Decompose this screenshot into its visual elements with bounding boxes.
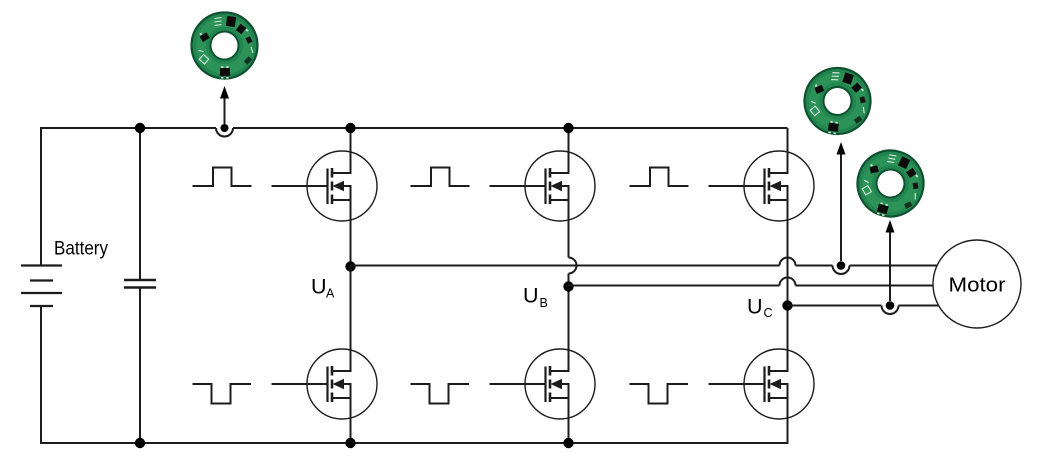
junction top rail / leg A [345, 123, 355, 133]
wire gate lead Q4 [490, 383, 546, 385]
wire node B down to Q4 drain [568, 287, 570, 372]
transistor Q2 low-side A [307, 349, 377, 419]
wire Q3 source down to hop [568, 200, 570, 258]
current sensor CS3 (ring PCB) [849, 142, 932, 225]
svg-text:U: U [311, 275, 327, 299]
junction node U_C [782, 300, 792, 310]
wire phase A (hop to sensor tap) [796, 265, 833, 267]
wire battery negative lead [40, 306, 42, 444]
node label U_C [747, 295, 773, 321]
wire capacitor bottom lead [139, 288, 141, 445]
gate drive pulse Q6 (low side) [630, 384, 689, 404]
wire phase B output (node to leg C hop) [569, 285, 780, 287]
wire Q3 hop to node B [568, 274, 570, 287]
gate drive pulse Q2 (low side) [193, 384, 252, 404]
sensor tap on phase C [882, 301, 899, 314]
svg-text:U: U [523, 284, 539, 308]
wire Q1 drain to top rail [350, 128, 352, 173]
gate drive pulse Q3 (high side) [411, 168, 470, 187]
wire gate lead Q6 [709, 383, 765, 385]
wire capacitor top lead [139, 128, 141, 280]
wire gate lead Q5 [709, 185, 765, 187]
wire top DC rail right of sensor tap [233, 127, 788, 129]
wire gate lead Q1 [272, 185, 328, 187]
svg-text:B: B [540, 296, 548, 310]
transistor Q5 high-side C [744, 151, 814, 221]
node label U_B [523, 284, 548, 311]
wire phase B (hop to motor) [796, 285, 936, 287]
svg-text:C: C [764, 306, 773, 320]
capacitor C1 [124, 280, 156, 288]
transistor Q1 high-side A [307, 151, 377, 221]
wire phase A output (node to leg C hop) [351, 265, 780, 267]
node label U_A [311, 275, 335, 301]
sensor tap on DC rail [216, 124, 233, 137]
wire Q4 source to bottom rail [568, 398, 570, 444]
measurement arrow to sensor CS2 [837, 142, 846, 261]
transistor Q4 low-side B [525, 349, 595, 419]
svg-text:U: U [747, 295, 763, 319]
wire gate lead Q3 [490, 185, 546, 187]
wire Q5 drain to top rail [787, 128, 789, 173]
svg-text:Motor: Motor [949, 274, 1006, 297]
wire gate lead Q2 [272, 383, 328, 385]
wire phase C (sensor tap to motor) [899, 305, 943, 307]
junction bottom rail / leg B [563, 438, 573, 448]
svg-text:A: A [326, 287, 335, 301]
junction node U_B [563, 281, 573, 291]
transistor Q3 high-side B [525, 151, 595, 221]
measurement arrow to sensor CS1 [220, 86, 229, 124]
motor M1 [933, 240, 1021, 328]
measurement arrow to sensor CS3 [886, 220, 895, 301]
junction bottom rail / leg A [345, 438, 355, 448]
junction top rail / leg B [563, 123, 573, 133]
junction bottom rail / C1 [135, 438, 145, 448]
wire bottom DC rail [40, 442, 788, 444]
gate drive pulse Q1 (high side) [193, 168, 252, 187]
wire top DC rail left of sensor tap [40, 127, 216, 129]
gate drive pulse Q4 (low side) [411, 384, 470, 404]
wire node A down to Q2 drain [350, 267, 352, 372]
current sensor CS1 (ring PCB) [192, 13, 258, 79]
wire Q1 source to node A [350, 200, 352, 267]
transistor Q6 low-side C [744, 349, 814, 419]
wire node C down to Q6 drain [787, 306, 789, 372]
gate drive pulse Q5 (high side) [630, 168, 689, 187]
wire hop: leg B over phase A line [569, 258, 577, 274]
wire phase A (sensor tap to motor) [850, 265, 941, 267]
wire hop: phase B over leg C [780, 278, 796, 286]
wire Q5 source to node C [787, 200, 789, 306]
sensor tap on phase A [833, 261, 850, 274]
wire Q2 source to bottom rail [350, 398, 352, 444]
junction top rail / C1 [135, 123, 145, 133]
battery BT1 [21, 266, 62, 307]
wire Q6 source to bottom rail [787, 398, 789, 444]
wire phase C output (node to sensor tap) [788, 305, 882, 307]
junction node U_A [345, 261, 355, 271]
wire hop: phase A over leg C [780, 258, 796, 266]
current sensor CS2 (ring PCB) [799, 63, 875, 140]
wire Q3 drain to top rail [568, 128, 570, 173]
wire battery positive lead [40, 127, 42, 266]
svg-text:Battery: Battery [54, 238, 108, 260]
